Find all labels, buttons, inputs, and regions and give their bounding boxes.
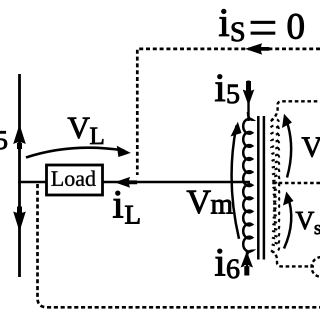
label Load [51,171,95,186]
arrowhead up (current up, on left branch) [13,124,26,149]
arc V_m (left of primary) [232,126,239,239]
arrowhead i_S (pointing left on dashed line) [245,43,269,54]
label i_S = 0 [219,9,229,35]
label V_s [296,212,314,229]
wire left vertical branch [18,74,21,277]
arrowhead i_L (pointing left into load) [115,177,138,188]
arrowhead V_m arc [231,122,242,137]
dashed lead secondary centre tap [272,182,320,184]
transformer core line 2 [263,116,266,260]
inductor secondary coil (dotted) [271,119,279,252]
arrowhead down (current down, lower left branch) [13,207,26,232]
dashed lead secondary bottom [271,251,314,267]
load box [47,165,103,195]
label V_L [68,118,90,139]
dashed loop bottom left (return path) [38,184,320,307]
label i_L [113,191,123,217]
label V upper (clipped) [302,138,320,157]
dashed loop top (i_S path) [137,49,320,175]
arc V_s lower (right of secondary) [284,196,291,249]
label i_5 [215,75,225,101]
arc V upper (right of secondary) [286,118,292,178]
label i_6 [215,249,225,275]
dashed lead secondary top [271,101,320,121]
wire load left (horizontal) [18,181,46,183]
arrowhead i_6 (pointing up) [241,251,253,275]
wire primary bottom with i6 arrow [246,250,248,274]
inductor primary coil [243,112,252,257]
arrowhead V upper arc [282,114,292,128]
source circle (dashed, clipped at right edge) [312,257,320,277]
arc V_L (curved arrow over load) [26,148,124,158]
label 5 (clipped at left edge) [0,131,7,149]
wire load right to transformer [103,181,250,183]
arrowhead i_5 (pointing down) [243,81,255,106]
label V_m [187,191,211,214]
arrowhead V_L arc [117,146,131,157]
transformer core line 1 [257,116,260,260]
arrowhead V_s arc [283,192,294,206]
wire primary top with i5 arrow [247,81,249,122]
